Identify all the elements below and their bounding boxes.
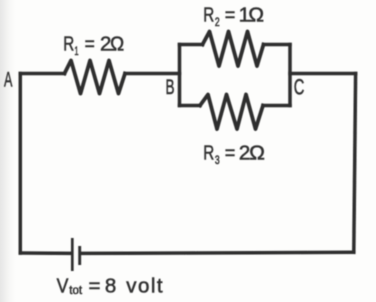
svg-text:3: 3 bbox=[215, 153, 220, 167]
svg-text:C: C bbox=[294, 75, 305, 100]
svg-text:R: R bbox=[63, 32, 74, 55]
label R1 value: R bbox=[63, 32, 74, 55]
svg-text:1: 1 bbox=[74, 44, 78, 58]
svg-text:B: B bbox=[166, 75, 175, 99]
label R1 value: 2 bbox=[100, 32, 111, 55]
wire bottom left segment (to battery) bbox=[20, 251, 71, 255]
wire: top branch left stub bbox=[180, 43, 203, 47]
wire left vertical A to bottom bbox=[19, 74, 23, 254]
wire bottom right segment (battery to right) bbox=[81, 252, 354, 253]
label R2 subscript 2 bbox=[215, 15, 220, 29]
label R3 subscript 3 bbox=[215, 153, 220, 167]
svg-text:Ω: Ω bbox=[248, 3, 264, 26]
svg-text:R: R bbox=[203, 3, 214, 26]
wire: bottom branch left stub bbox=[180, 104, 201, 108]
label R2 value: ohm sign bbox=[248, 3, 264, 26]
svg-text:Ω: Ω bbox=[110, 32, 124, 55]
wire: bottom branch right stub bbox=[263, 104, 290, 108]
svg-text:=: = bbox=[89, 274, 101, 297]
label R3 value: 2 bbox=[239, 142, 250, 165]
svg-text:volt: volt bbox=[126, 274, 163, 297]
label R1 subscript 1 bbox=[74, 44, 78, 58]
svg-text:=: = bbox=[85, 32, 95, 55]
svg-text:=: = bbox=[225, 3, 236, 26]
battery Vtot short plate bbox=[78, 246, 81, 265]
svg-text:A: A bbox=[4, 67, 13, 91]
svg-text:V: V bbox=[57, 274, 69, 297]
label R2 value: 1 bbox=[239, 3, 250, 26]
svg-text:R: R bbox=[203, 142, 214, 165]
node B label bbox=[166, 75, 175, 99]
label R3 value: equals sign bbox=[225, 142, 236, 165]
label R2 value: R bbox=[203, 3, 214, 26]
wire: resistor R1 to node B bbox=[125, 72, 180, 76]
wire: node C to right side bbox=[290, 72, 356, 76]
wire: parallel box left vertical (node B junction) bbox=[178, 45, 182, 106]
battery Vtot long plate bbox=[71, 238, 74, 271]
resistor R2 bbox=[203, 32, 264, 67]
resistor R3 bbox=[200, 95, 263, 130]
label R1 value: equals sign bbox=[85, 32, 95, 55]
label Vtot value: volt bbox=[126, 274, 163, 297]
svg-text:2: 2 bbox=[215, 15, 220, 29]
wire right vertical bbox=[354, 74, 356, 253]
label R1 value: ohm sign bbox=[110, 32, 124, 55]
label R2 value: equals sign bbox=[225, 3, 236, 26]
label Vtot value: 8 bbox=[105, 274, 116, 297]
wire top: node A to resistor R1 bbox=[20, 72, 64, 76]
svg-text:8: 8 bbox=[105, 274, 116, 297]
node A label bbox=[4, 67, 13, 91]
node C label bbox=[294, 75, 305, 100]
wire: top branch right stub bbox=[264, 43, 291, 47]
wire: parallel box right vertical (node C junction) bbox=[288, 45, 292, 106]
label Vtot subscript tot bbox=[69, 285, 83, 297]
svg-text:Ω: Ω bbox=[249, 142, 265, 165]
svg-text:tot: tot bbox=[69, 285, 83, 297]
label Vtot value: equals sign bbox=[89, 274, 101, 297]
label R3 value: R bbox=[203, 142, 214, 165]
resistor R1 bbox=[65, 61, 126, 94]
svg-text:=: = bbox=[225, 142, 236, 165]
label R3 value: ohm sign bbox=[249, 142, 265, 165]
label Vtot: V bbox=[57, 274, 69, 297]
